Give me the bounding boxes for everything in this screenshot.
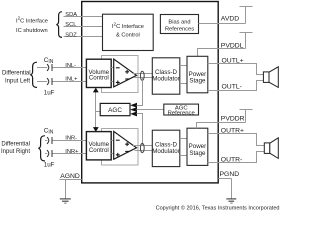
svg-text:OUTL-: OUTL- — [222, 84, 242, 91]
wire amp L out pair — [133, 73, 152, 75]
wire SCL — [64, 26, 103, 28]
svg-text:Control: Control — [89, 147, 109, 154]
svg-text:INL-: INL- — [65, 63, 76, 69]
arrowhead AGC in top — [130, 103, 137, 108]
op-amp R — [114, 131, 137, 159]
wire INL- — [37, 67, 47, 69]
brace input right — [38, 136, 45, 161]
svg-text:INR-: INR- — [65, 136, 77, 142]
wire modulator to power R — [180, 138, 187, 140]
svg-text:CIN: CIN — [44, 127, 54, 135]
arrowhead AGC in bottom — [130, 111, 137, 116]
wire AVDD — [199, 23, 246, 25]
arrowhead AGC in mid — [130, 107, 137, 112]
brace I2C group — [56, 12, 62, 38]
speaker right — [264, 143, 270, 154]
svg-text:INR+: INR+ — [65, 149, 79, 155]
svg-text:& Control: & Control — [116, 33, 140, 39]
speaker left — [263, 72, 269, 83]
svg-text:PVDDL: PVDDL — [221, 43, 244, 50]
svg-text:Modulator: Modulator — [152, 76, 180, 83]
wire INR- — [45, 140, 47, 142]
node oval R — [140, 143, 144, 152]
supply symbol PVDDR — [245, 110, 247, 123]
block Power Stage L — [187, 56, 208, 93]
svg-text:Control: Control — [89, 75, 109, 82]
wire OUTL- — [208, 81, 264, 91]
wire AGND — [60, 179, 82, 181]
svg-text:Differential: Differential — [2, 71, 31, 77]
brace input left — [30, 62, 37, 87]
capacitor CIN top-left — [47, 64, 49, 71]
ground AGND — [65, 180, 67, 199]
wire INL+ — [37, 81, 47, 83]
svg-text:SCL: SCL — [65, 22, 76, 28]
svg-text:PGND: PGND — [220, 171, 240, 178]
block I2C Interface & Control — [103, 14, 154, 50]
wire feedback L to AGC — [137, 78, 143, 106]
svg-text:Copyright © 2016, Texas Instru: Copyright © 2016, Texas Instruments Inco… — [156, 205, 280, 212]
ground PGND — [231, 179, 233, 199]
svg-text:AGND: AGND — [60, 173, 80, 180]
svg-text:SDA: SDA — [65, 12, 77, 18]
svg-text:AGC: AGC — [108, 107, 122, 114]
svg-text:Input Right: Input Right — [1, 149, 30, 155]
wire amp R out pair — [133, 145, 152, 147]
svg-text:Bias and: Bias and — [168, 19, 190, 25]
svg-text:OUTR+: OUTR+ — [221, 128, 244, 135]
op-amp L — [114, 59, 137, 87]
wire VC to amp L — [111, 67, 114, 69]
svg-text:References: References — [165, 26, 194, 32]
block Volume Control L — [86, 59, 111, 87]
capacitor CIN top-right — [47, 137, 49, 144]
svg-text:Input Left: Input Left — [5, 78, 30, 84]
block Class-D Modulator L — [152, 58, 180, 94]
wire OUTR+ — [208, 134, 264, 146]
wire AGC reference to AGC — [137, 109, 164, 111]
block AGC Reference — [164, 104, 199, 115]
arrow to VC L — [93, 88, 99, 93]
wire PGND — [218, 178, 231, 180]
capacitor CIN bottom-right — [47, 150, 49, 157]
chip outline U1 — [82, 2, 219, 183]
node oval L — [140, 71, 144, 80]
wire OUTL+ — [208, 64, 264, 75]
supply symbol PVDDL — [245, 33, 247, 49]
wire VC to amp R — [111, 140, 114, 142]
wire INR+ — [45, 153, 47, 155]
wire modulator to power L — [180, 65, 187, 67]
svg-text:PVDDR: PVDDR — [221, 116, 245, 123]
block Volume Control R — [86, 132, 111, 160]
wire SDA — [64, 16, 103, 18]
capacitor CIN bottom-left — [47, 78, 49, 85]
svg-text:Differential: Differential — [1, 141, 30, 147]
wire AGC output to volume controls — [96, 112, 101, 128]
wire PVDDR — [197, 123, 246, 129]
arrow to VC R — [93, 127, 99, 132]
wire OUTR- — [208, 152, 264, 163]
svg-text:Stage: Stage — [189, 78, 206, 85]
supply symbol AVDD — [245, 7, 247, 24]
svg-text:Reference: Reference — [168, 111, 196, 117]
svg-text:1uF: 1uF — [44, 89, 55, 96]
svg-text:OUTR-: OUTR- — [221, 157, 243, 164]
block Class-D Modulator R — [152, 130, 180, 166]
gray group box right channel — [102, 129, 139, 166]
svg-text:INL+: INL+ — [65, 77, 78, 83]
block Power Stage R — [187, 128, 208, 165]
svg-text:1uF: 1uF — [44, 162, 55, 169]
svg-text:SDZ: SDZ — [65, 33, 77, 39]
gray group box left channel — [102, 56, 139, 93]
block Bias and References — [160, 15, 198, 34]
svg-text:Modulator: Modulator — [152, 148, 180, 155]
svg-text:IC shutdown: IC shutdown — [16, 28, 48, 34]
svg-text:OUTL+: OUTL+ — [222, 58, 244, 65]
svg-text:CIN: CIN — [44, 57, 54, 65]
svg-text:AVDD: AVDD — [221, 16, 239, 23]
wire PVDDL — [198, 49, 246, 57]
svg-text:Stage: Stage — [189, 150, 206, 157]
wire feedback R to AGC — [137, 114, 143, 146]
wire SDZ — [64, 36, 103, 38]
block AGC — [100, 103, 130, 115]
